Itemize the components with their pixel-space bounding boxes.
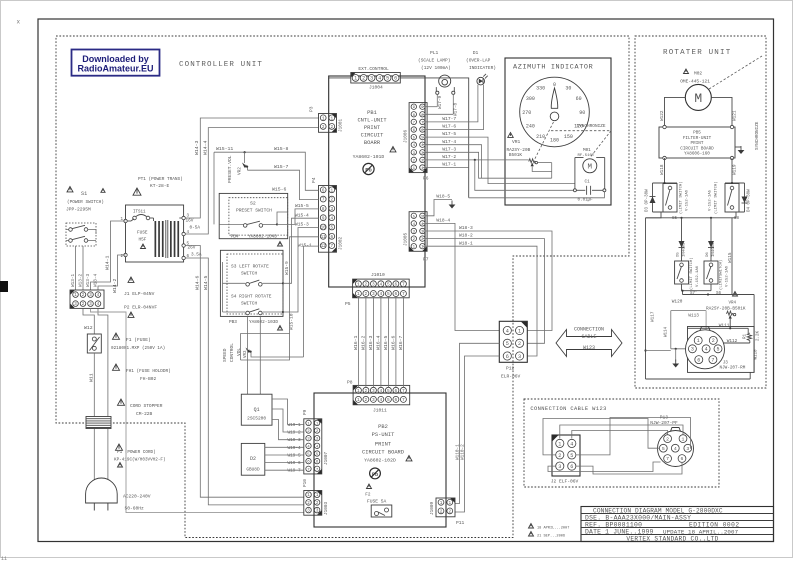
svg-text:M02: M02 [694, 71, 702, 77]
svg-text:PT1 (POWER TRANS): PT1 (POWER TRANS) [138, 177, 183, 182]
svg-text:W15-6: W15-6 [272, 187, 287, 193]
scale lamp PL1 [436, 75, 455, 94]
svg-text:W13-1: W13-1 [71, 273, 76, 287]
svg-text:V-152-1A6: V-152-1A6 [696, 265, 700, 287]
diode D4 OP-30W [742, 183, 752, 212]
connector J1011/P8 [347, 380, 410, 414]
wire W17-7 D1 to J1006 [423, 85, 478, 122]
resistor R1 [744, 330, 761, 343]
svg-text:S2: S2 [250, 201, 256, 207]
azimuth dial numbers [522, 82, 585, 144]
svg-text:W18-5: W18-5 [436, 193, 450, 199]
wire W120 lower bus [672, 284, 711, 305]
controller unit dashed boundary [56, 36, 629, 538]
svg-text:16V: 16V [186, 219, 194, 224]
wire W15-1 to J1002 pin7 [289, 246, 319, 357]
svg-text:180: 180 [550, 138, 559, 144]
wire J3 pin3 to W117 [646, 350, 671, 352]
svg-text:CIRCUIT BOARD: CIRCUIT BOARD [680, 146, 714, 151]
svg-text:F1 (FUSE): F1 (FUSE) [126, 337, 151, 343]
preset switch S2 box [219, 193, 288, 246]
wire D2 to J1007 pin7 [265, 469, 304, 471]
connector J1007/P9 [303, 409, 329, 474]
svg-text:P7: P7 [423, 257, 429, 263]
svg-text:M01: M01 [583, 148, 591, 153]
power switch S1 [66, 223, 96, 246]
svg-text:W120: W120 [672, 300, 683, 305]
transformer output labels [186, 219, 202, 258]
svg-text:W19-7: W19-7 [288, 469, 302, 474]
svg-text:6: 6 [330, 235, 333, 240]
wire label W15-10 [289, 313, 295, 330]
svg-text:2: 2 [121, 255, 124, 259]
cable wire J2 pin5 to P13 pin3 [576, 418, 692, 455]
wire P3 to PB1 interior [328, 133, 330, 186]
svg-text:3: 3 [686, 446, 689, 452]
svg-text:270: 270 [522, 110, 531, 116]
svg-text:B501K: B501K [509, 153, 523, 158]
svg-text:PL1: PL1 [430, 50, 439, 56]
svg-text:W13-4: W13-4 [94, 273, 99, 287]
svg-text:VR1: VR1 [512, 139, 521, 145]
svg-text:UPDATE 18 APRIL..2007: UPDATE 18 APRIL..2007 [663, 528, 739, 535]
svg-text:CABLE: CABLE [581, 334, 596, 340]
svg-text:50-60Hz: 50-60Hz [125, 506, 145, 512]
svg-text:YA8602-103D: YA8602-103D [249, 320, 278, 325]
svg-text:W19-5: W19-5 [288, 454, 302, 459]
svg-text:CM-22B: CM-22B [136, 411, 153, 417]
connector P4/J1002 [311, 177, 344, 252]
corner registration mark x [17, 19, 21, 26]
svg-text:5: 5 [662, 446, 665, 452]
svg-text:P6: P6 [423, 176, 429, 182]
wire W17-2 to VR1 and C1 [423, 154, 575, 190]
svg-text:300: 300 [526, 96, 535, 102]
svg-text:W11: W11 [89, 373, 95, 382]
wire power cord second conductor [98, 309, 108, 481]
wire W122 motor to PB5 [660, 97, 685, 127]
wire W110-2 P11 to P12 pin6 [455, 356, 499, 512]
wire W17-6 D1 to J1006 [423, 85, 484, 130]
cable wire J2 pin4 to P13 pin2 [572, 431, 668, 439]
ext control label [358, 66, 389, 72]
svg-text:W19-4: W19-4 [288, 446, 302, 451]
svg-text:RA2SY-20B-B501K: RA2SY-20B-B501K [706, 306, 746, 311]
svg-text:YA8602-101D: YA8602-101D [353, 154, 385, 160]
azimuth indicator title [513, 64, 593, 72]
wire switch right pole down [95, 230, 97, 235]
svg-text:W17-3: W17-3 [442, 146, 456, 152]
svg-text:240: 240 [526, 124, 535, 130]
connector J1 label [124, 277, 155, 297]
svg-text:6: 6 [395, 281, 398, 287]
svg-text:J2 ELF-06V: J2 ELF-06V [551, 479, 579, 485]
limit switch S8 [709, 181, 740, 221]
transistor Q1 [241, 394, 272, 425]
svg-text:2: 2 [518, 341, 521, 347]
scale lamp PL1 labels [418, 50, 451, 71]
limit switch S6 [704, 260, 730, 296]
overlap LED D1 labels [466, 50, 496, 71]
svg-text:W17-6: W17-6 [442, 124, 456, 130]
svg-text:IN4005: IN4005 [712, 242, 716, 257]
fuse F2 [365, 484, 392, 517]
svg-text:21 SEP...2006: 21 SEP...2006 [537, 535, 565, 539]
svg-text:CONTROL: CONTROL [229, 343, 235, 362]
wire labels W15-5 W15-4 W15-3 W15-1 [295, 203, 312, 249]
svg-text:PRESET.VOL: PRESET.VOL [227, 155, 233, 183]
svg-text:7: 7 [330, 244, 333, 249]
connection cable arrow W123 [556, 327, 622, 357]
wire W18-4 to P12 pin4 [423, 218, 500, 331]
svg-text:Downloaded by: Downloaded by [82, 54, 149, 64]
svg-text:W110-2: W110-2 [460, 444, 465, 460]
PB1 part number [353, 147, 396, 161]
svg-text:W15-3: W15-3 [295, 222, 309, 228]
svg-text:6: 6 [570, 464, 573, 470]
connector J1003/P10 [303, 479, 329, 515]
svg-text:6: 6 [697, 357, 700, 363]
svg-text:P1 (POWER CORD): P1 (POWER CORD) [117, 450, 156, 455]
svg-text:PB3: PB3 [229, 320, 237, 325]
svg-text:VERTEX STANDARD CO..LTD: VERTEX STANDARD CO..LTD [626, 536, 718, 543]
svg-text:AZIMUTH INDICATOR: AZIMUTH INDICATOR [513, 64, 593, 72]
svg-text:1: 1 [322, 116, 325, 121]
svg-text:W15-11: W15-11 [216, 146, 233, 152]
synchronize dashed link [534, 122, 611, 161]
svg-text:W114: W114 [665, 326, 669, 337]
svg-text:D1: D1 [473, 50, 479, 56]
svg-text:S6: S6 [716, 292, 722, 296]
svg-text:(SCALE LAMP): (SCALE LAMP) [418, 58, 450, 64]
controller unit title [179, 61, 263, 69]
PB2 board outline [314, 393, 446, 527]
wire S4 to J1002 pin5 [223, 228, 319, 314]
cable wire J2 pin6 to P13 pin6 [576, 462, 682, 474]
wire W18-2 to P12 pin2 [423, 233, 545, 344]
rotater unit title [663, 49, 731, 57]
svg-text:W119: W119 [733, 164, 738, 175]
svg-text:4: 4 [380, 397, 383, 403]
svg-text:W14-5: W14-5 [203, 275, 209, 290]
svg-text:4: 4 [380, 281, 383, 287]
cord stopper labels [118, 399, 163, 417]
wire W112 [721, 339, 750, 346]
speed control VR3 [222, 343, 289, 362]
svg-text:W14-3: W14-3 [194, 140, 200, 155]
svg-text:J1006: J1006 [404, 129, 409, 143]
svg-text:J1001: J1001 [339, 118, 344, 132]
svg-text:W14-2: W14-2 [112, 278, 118, 293]
wire D2 to J1007 pin4 [265, 446, 304, 448]
PB2 board text [362, 424, 412, 464]
wire W115 [728, 218, 733, 295]
indicator potentiometer VR1 [507, 133, 552, 179]
svg-text:1: 1 [518, 328, 521, 334]
svg-text:1: 1 [357, 281, 360, 287]
transformer PT1 [121, 205, 190, 262]
round connector J3 [686, 327, 755, 373]
svg-text:(OVER-LAP: (OVER-LAP [466, 58, 491, 64]
wire bundle W16-1..W16-7 J1010 to J1011 [353, 297, 404, 388]
wire W118 [660, 158, 665, 183]
svg-text:YA8602-104D: YA8602-104D [248, 235, 277, 240]
svg-text:18 APRIL...2007: 18 APRIL...2007 [537, 527, 569, 531]
wire W14-2 transformer pin2 to strip [98, 255, 126, 293]
svg-text:2: 2 [712, 338, 715, 344]
svg-text:D4 OP-30W: D4 OP-30W [748, 189, 752, 212]
svg-text:1: 1 [682, 436, 685, 442]
svg-text:PRINT: PRINT [375, 442, 392, 448]
PB2 lead-free mark [370, 468, 381, 479]
power cord P1 labels [114, 444, 166, 467]
wire W17-8 lamp to J1006 pin8 [423, 94, 459, 116]
svg-text:SYNCHRONIZE: SYNCHRONIZE [577, 124, 606, 129]
svg-text:J1003: J1003 [324, 501, 329, 515]
svg-text:W19-1: W19-1 [288, 423, 302, 428]
svg-text:W14-1: W14-1 [105, 255, 111, 270]
connection cable W123 dashed box [524, 399, 719, 487]
svg-text:SPEED: SPEED [222, 348, 228, 362]
svg-text:90: 90 [579, 110, 585, 116]
svg-text:EXT.CONTROL: EXT.CONTROL [358, 66, 389, 72]
svg-text:PRINT: PRINT [691, 141, 704, 146]
svg-text:5: 5 [386, 76, 389, 82]
wire label W15-9 [284, 261, 290, 275]
wire neutral to P10 pin3 [91, 309, 304, 513]
svg-text:W17-8: W17-8 [453, 102, 458, 116]
svg-text:M: M [588, 164, 593, 172]
fuse holder FH1 labels [113, 364, 171, 382]
wire upper limit bottom bus [646, 212, 745, 219]
svg-text:EDITION 0002: EDITION 0002 [689, 521, 740, 528]
svg-text:CNTL-UNIT: CNTL-UNIT [357, 118, 387, 124]
svg-text:J1011: J1011 [373, 408, 387, 414]
svg-text:PS-UNIT: PS-UNIT [372, 432, 395, 438]
svg-text:W18-3: W18-3 [459, 225, 473, 231]
svg-text:M: M [694, 91, 702, 106]
svg-text:4: 4 [570, 441, 573, 447]
svg-text:W15-7: W15-7 [274, 164, 289, 170]
wire W18-1 to P12 pin3 [423, 240, 537, 356]
svg-text:J1009: J1009 [430, 501, 435, 515]
svg-text:1: 1 [330, 116, 333, 121]
svg-text:6: 6 [322, 188, 325, 193]
svg-text:GBU8D: GBU8D [246, 468, 260, 473]
svg-text:0218001.MXP (250V 1A): 0218001.MXP (250V 1A) [111, 346, 165, 351]
svg-text:26V: 26V [188, 246, 196, 251]
svg-text:W17-1: W17-1 [442, 162, 456, 168]
svg-text:W17-9: W17-9 [438, 95, 443, 109]
svg-text:H5F: H5F [139, 238, 147, 243]
svg-text:W16-1: W16-1 [353, 335, 359, 350]
svg-text:ELR-06V: ELR-06V [501, 374, 521, 380]
svg-text:3: 3 [372, 397, 375, 403]
wire VR3 to J1002 pin6 [290, 237, 319, 334]
svg-text:7: 7 [711, 357, 714, 363]
sheet number 11 [1, 556, 7, 561]
svg-text:PRESET SWITCH: PRESET SWITCH [236, 208, 272, 214]
connection cable W123 title [530, 406, 606, 412]
svg-text:W117: W117 [651, 311, 656, 322]
wire S3 to J1002 pin4 [223, 218, 319, 284]
cable wire J2 pin3 to P13 pin7 [548, 462, 661, 472]
svg-text:F2: F2 [365, 493, 371, 498]
svg-text:W13-2: W13-2 [79, 273, 84, 287]
svg-text:3: 3 [372, 291, 375, 297]
svg-text:CONNECTION: CONNECTION [574, 327, 604, 333]
svg-text:PB5: PB5 [693, 131, 701, 136]
svg-text:4: 4 [380, 291, 383, 297]
wire W14-6 transformer pin5 to P10 [185, 246, 303, 498]
svg-text:W18-1: W18-1 [459, 240, 473, 246]
svg-text:5: 5 [387, 397, 390, 403]
wire W12 strip to fuse [83, 309, 94, 335]
svg-text:3: 3 [691, 347, 694, 353]
svg-text:2: 2 [666, 436, 669, 442]
wire S1 to terminal strip [76, 246, 84, 290]
left margin black mark [0, 281, 8, 292]
limit switch S5 [663, 181, 690, 221]
svg-text:(LIMIT SWITCH): (LIMIT SWITCH) [689, 257, 694, 290]
wire W121 motor to PB5 [711, 97, 737, 127]
potentiometer VR4 [706, 292, 746, 329]
rotater unit dashed boundary [635, 36, 766, 388]
connector P12 [499, 321, 527, 379]
wire Q1 to J1007 pin3 [272, 420, 304, 440]
svg-text:J1002: J1002 [339, 236, 344, 250]
svg-text:1: 1 [558, 441, 561, 447]
svg-text:μF: μF [588, 198, 594, 203]
svg-text:FUSE: FUSE [137, 231, 148, 236]
svg-text:6: 6 [506, 354, 509, 360]
svg-text:(POWER SWITCH): (POWER SWITCH) [67, 200, 104, 205]
svg-text:W111: W111 [719, 323, 730, 328]
svg-text:W122: W122 [660, 110, 665, 121]
svg-text:V-152-1A5: V-152-1A5 [709, 189, 713, 211]
svg-text:6: 6 [395, 291, 398, 297]
svg-text:(LIMIT SWITCH): (LIMIT SWITCH) [679, 181, 684, 214]
svg-text:W16-4: W16-4 [376, 335, 382, 350]
svg-text:0-5A: 0-5A [190, 226, 201, 231]
svg-text:IN4005: IN4005 [683, 242, 687, 257]
svg-text:W123: W123 [583, 345, 595, 351]
svg-text:150: 150 [564, 134, 573, 140]
wire D2 to J1007 pin5 [265, 454, 304, 456]
svg-text:P3: P3 [309, 106, 315, 112]
svg-text:J1007: J1007 [324, 451, 329, 465]
limit switch S7 [675, 257, 700, 296]
svg-text:5: 5 [387, 281, 390, 287]
svg-text:W121: W121 [733, 110, 738, 121]
connector P2 label [124, 305, 157, 318]
svg-text:R1: R1 [744, 333, 748, 339]
svg-text:7: 7 [402, 291, 405, 297]
svg-text:W19-2: W19-2 [288, 431, 302, 436]
svg-text:W19-6: W19-6 [288, 461, 302, 466]
revision notes [529, 524, 570, 539]
wire W110 rotator [754, 295, 758, 373]
svg-text:S3 LEFT ROTATE: S3 LEFT ROTATE [231, 264, 269, 270]
svg-text:5: 5 [716, 347, 719, 353]
wire W17-9 lamp to J1006 pin9 [423, 94, 443, 109]
wire S3 contact down to Q1 [247, 316, 249, 394]
svg-text:CONNECTION CABLE W123: CONNECTION CABLE W123 [530, 406, 606, 412]
wire W117 [644, 218, 655, 379]
svg-text:ROTATER UNIT: ROTATER UNIT [663, 49, 731, 57]
svg-text:Q1: Q1 [254, 407, 260, 413]
svg-text:W14-4: W14-4 [203, 140, 209, 155]
svg-text:VR2: VR2 [238, 167, 243, 175]
capacitor C1 [573, 179, 606, 202]
fuse F1 labels [111, 333, 165, 351]
connector J1005/P7 [404, 212, 429, 263]
wire W17-5 to motor [423, 131, 575, 183]
transformer PT1 labels [133, 177, 183, 195]
svg-text:5: 5 [506, 341, 509, 347]
wire D2 to J1007 pin6 [265, 462, 304, 464]
svg-text:W14-6: W14-6 [195, 275, 201, 290]
svg-text:J1004: J1004 [369, 85, 383, 91]
svg-text:V-152-1A6: V-152-1A6 [686, 189, 690, 211]
azimuth dial [520, 77, 590, 147]
wire W111 [688, 323, 749, 333]
svg-text:2.2K: 2.2K [757, 330, 761, 341]
svg-text:(LIMITSWITCH): (LIMITSWITCH) [719, 260, 724, 290]
svg-text:PRINT: PRINT [364, 125, 381, 131]
svg-text:11: 11 [321, 235, 327, 240]
svg-text:P2 ELR-04NVF: P2 ELR-04NVF [124, 305, 157, 311]
wire J1004 right to lamp circuit [400, 78, 468, 198]
svg-text:2: 2 [330, 125, 333, 130]
svg-text:PB4: PB4 [231, 235, 239, 240]
fuse F1 [87, 334, 101, 353]
wire S4 contact down to Q1 [259, 316, 261, 394]
wire W17-4 [423, 139, 482, 178]
svg-text:W17-7: W17-7 [442, 116, 456, 122]
svg-text:S7: S7 [690, 292, 696, 296]
svg-text:W115: W115 [728, 252, 733, 263]
svg-text:4: 4 [378, 76, 381, 82]
PB5 ground [735, 146, 744, 154]
svg-text:W16-7: W16-7 [398, 335, 404, 350]
svg-text:W13-3: W13-3 [86, 273, 91, 287]
svg-text:W12: W12 [84, 325, 93, 331]
wire W14-5 transformer pin6 to P10 [185, 258, 303, 505]
svg-text:J3: J3 [723, 360, 729, 365]
svg-text:7: 7 [402, 397, 405, 403]
svg-text:CONNECTION DIAGRAM MODEL G-2: CONNECTION DIAGRAM MODEL G-2800DXC [593, 507, 723, 514]
diode D6 IN4005 [706, 218, 716, 261]
svg-text:RadioAmateur.EU: RadioAmateur.EU [77, 63, 153, 73]
svg-text:5: 5 [330, 226, 333, 231]
wire W11 fuse to cord stopper [89, 353, 95, 480]
power plug P1 [86, 478, 118, 511]
wire W15-7 VR2 to J1002 pin2 [248, 164, 319, 200]
PB1 lead-free mark [363, 163, 374, 174]
svg-text:PB2: PB2 [378, 424, 388, 430]
wire W17-1 to C1 right [423, 162, 605, 198]
synchronize dashed diagonal [709, 56, 762, 150]
svg-text:ITS11: ITS11 [133, 211, 146, 215]
wire below J3 [646, 372, 751, 379]
svg-text:FH-B02: FH-B02 [140, 376, 157, 382]
svg-text:KT-28-E: KT-28-E [150, 183, 170, 189]
svg-text:6: 6 [681, 456, 684, 462]
wire W17-3 to VR1 loop [423, 146, 552, 178]
svg-text:CIRCUIT: CIRCUIT [361, 133, 384, 139]
RadioAmateur.EU logo box [72, 50, 160, 76]
